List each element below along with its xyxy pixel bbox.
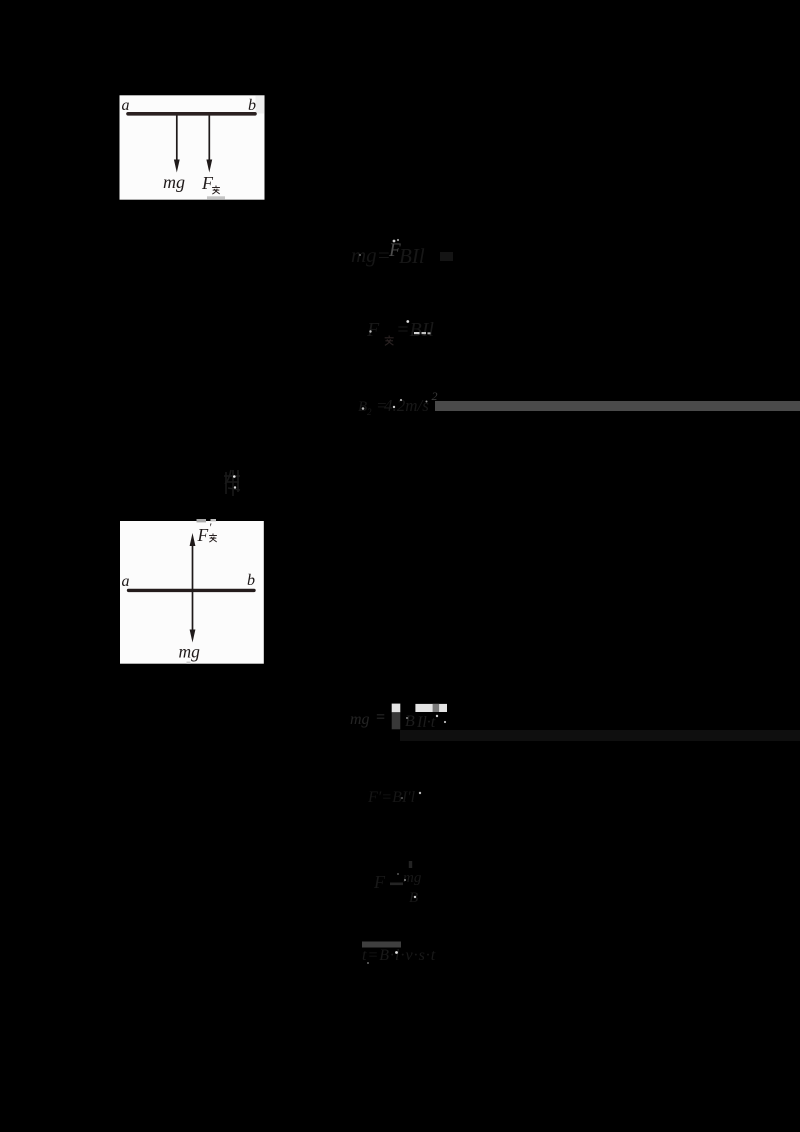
force arrow mg (figure 1) bbox=[176, 116, 178, 162]
equation row 6: fraction bbox=[373, 861, 422, 906]
svg-text:4.2m/s: 4.2m/s bbox=[384, 396, 429, 415]
equation row 2: F_an = BIl bbox=[366, 319, 434, 345]
svg-text:Il·t: Il·t bbox=[416, 714, 436, 731]
svg-text:2: 2 bbox=[432, 389, 438, 403]
svg-text:F: F bbox=[366, 319, 380, 341]
svg-text:2: 2 bbox=[367, 407, 372, 417]
svg-text:B: B bbox=[409, 890, 418, 906]
force arrow F_an (figure 1) bbox=[208, 116, 210, 162]
svg-text:a: a bbox=[122, 573, 130, 590]
svg-text:t=B·l·v·s·t: t=B·l·v·s·t bbox=[362, 947, 436, 964]
svg-text:=: = bbox=[375, 709, 386, 726]
label subscript an (figure 2) bbox=[209, 534, 217, 543]
equation row 5: F' = BI'l bbox=[367, 789, 421, 806]
svg-text:BIl: BIl bbox=[399, 244, 425, 268]
svg-text:mg: mg bbox=[403, 870, 422, 886]
rod ab (figure 1) bbox=[128, 112, 255, 116]
figure 1 top-right faint gray patch bbox=[256, 96, 265, 114]
equation row 3: a = 4.2 m/s^2 bbox=[358, 389, 438, 417]
smudge under label (figure 1) bbox=[207, 196, 225, 199]
equation row 4: mg - F' = ma with light highlights bbox=[350, 704, 447, 731]
svg-text:b: b bbox=[247, 572, 255, 589]
figure 2 white panel bbox=[120, 521, 264, 664]
svg-text:b: b bbox=[248, 97, 256, 114]
svg-text:B: B bbox=[405, 713, 415, 730]
svg-text:a: a bbox=[122, 97, 130, 114]
rod ab (figure 2) bbox=[129, 589, 255, 592]
svg-text:mg=: mg= bbox=[351, 243, 391, 267]
svg-text:F: F bbox=[373, 872, 386, 892]
figure 1 white panel bbox=[120, 95, 265, 199]
equation row 7 bbox=[362, 942, 436, 965]
svg-text:′: ′ bbox=[210, 520, 213, 534]
svg-text:F: F bbox=[201, 173, 214, 193]
long gray underline band (row 3) bbox=[435, 401, 800, 411]
svg-text:F: F bbox=[197, 525, 209, 545]
svg-text:F′=BI′l: F′=BI′l bbox=[367, 789, 416, 806]
figure 2 bottom smudge bbox=[187, 662, 191, 664]
svg-text:mg: mg bbox=[163, 172, 185, 192]
equation row 1: mg = BIl bbox=[351, 239, 453, 268]
part 2 marker bbox=[224, 470, 240, 496]
svg-text:=BIl: =BIl bbox=[396, 319, 434, 341]
faint wide band under row 4 bbox=[400, 730, 800, 741]
svg-text:mg: mg bbox=[350, 711, 370, 728]
force arrow F'_an up and mg down (figure 2) bbox=[192, 543, 194, 633]
figure 2 top smudges bbox=[197, 519, 207, 522]
svg-text:B: B bbox=[358, 399, 367, 415]
svg-text:mg: mg bbox=[179, 642, 201, 662]
label subscript an (figure 1) bbox=[212, 186, 220, 195]
